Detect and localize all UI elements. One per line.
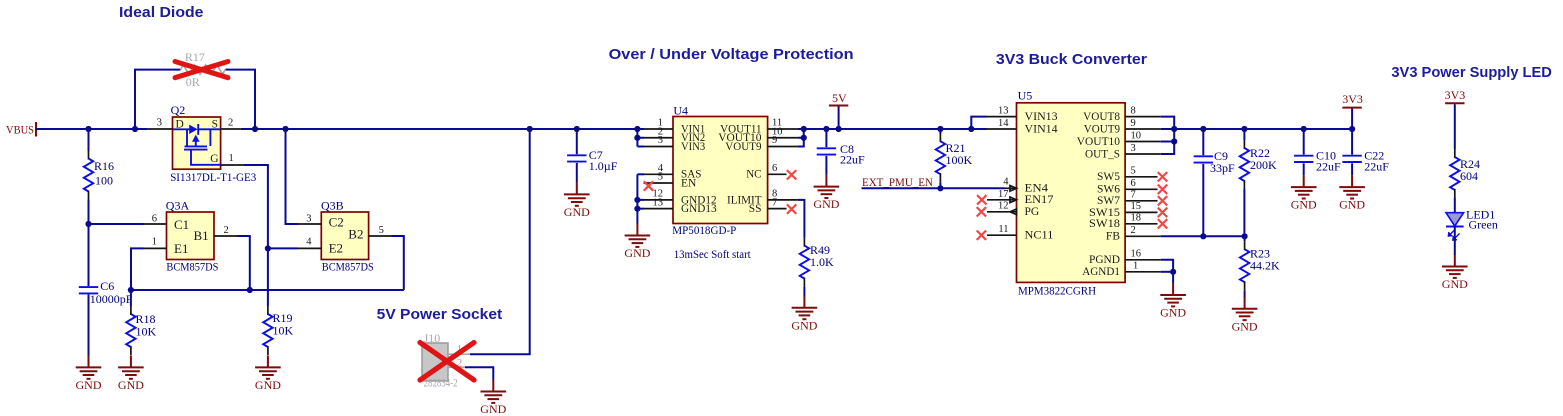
- wire ILIMIT to R49: [798, 200, 805, 238]
- svg-text:1: 1: [1133, 261, 1138, 272]
- wire R24 to LED1: [1454, 198, 1456, 213]
- pin 3 (U4 VIN3): [644, 146, 674, 148]
- ground (C7): [564, 182, 590, 219]
- svg-text:22uF: 22uF: [840, 152, 865, 166]
- node U4 input bus top: [634, 126, 640, 132]
- svg-text:SS: SS: [749, 203, 762, 215]
- svg-text:R17: R17: [185, 50, 205, 64]
- wire C6 to GND: [88, 294, 90, 355]
- ground (C22): [1339, 175, 1365, 212]
- pin 16 (U5 PGND): [1125, 259, 1161, 261]
- svg-text:U5: U5: [1018, 89, 1033, 103]
- resistor R23: [1244, 236, 1246, 241]
- svg-text:13: 13: [998, 106, 1009, 117]
- pin 1 (U4 VIN1): [644, 128, 674, 130]
- wire B1 down: [237, 236, 250, 290]
- svg-text:Q3B: Q3B: [321, 198, 344, 212]
- svg-text:Q2: Q2: [171, 103, 186, 117]
- svg-text:PG: PG: [1025, 206, 1040, 218]
- wire R21 to EN net: [939, 182, 941, 188]
- svg-text:7: 7: [772, 197, 777, 208]
- pin 5 (U5 SW5, no connect): [1125, 176, 1157, 178]
- svg-text:13: 13: [653, 197, 664, 208]
- node R17 left riser: [132, 126, 138, 132]
- resistor R16: [88, 129, 90, 151]
- svg-text:1: 1: [229, 153, 234, 164]
- power 5V: [838, 107, 840, 130]
- svg-text:0R: 0R: [186, 75, 200, 89]
- svg-text:SI1317DL-T1-GE3: SI1317DL-T1-GE3: [170, 170, 256, 184]
- wire R23 to GND: [1244, 290, 1246, 297]
- svg-text:5V Power Socket: 5V Power Socket: [377, 306, 503, 323]
- pin 13 (U5 VIN13): [987, 116, 1017, 118]
- pin 14 (U5 VIN14): [987, 128, 1017, 130]
- wire J10 riser: [470, 129, 530, 354]
- pin 9 (U4 VOUT9): [768, 146, 798, 148]
- node C9 top: [1200, 126, 1206, 132]
- svg-text:Q3A: Q3A: [166, 198, 190, 212]
- svg-text:E2: E2: [329, 241, 343, 256]
- node PGND/AGND: [1170, 269, 1176, 275]
- node G/E2/R19: [265, 245, 271, 251]
- capacitor C7: [576, 129, 578, 154]
- pin 11 (U5 NC11, no connect): [987, 234, 1017, 236]
- wire C22 to GND: [1351, 163, 1353, 175]
- node E1/R18/base rail: [128, 287, 134, 293]
- node U4 pin2: [634, 135, 640, 141]
- pin 17 (U5 EN17, no connect): [987, 199, 1017, 201]
- node 5V riser: [836, 126, 842, 132]
- svg-text:PGND: PGND: [1089, 254, 1120, 266]
- wire C1 pin6: [89, 223, 144, 225]
- connector J10 (not fitted, gray): [422, 343, 470, 381]
- wire base rail: [131, 289, 404, 291]
- svg-text:C2: C2: [329, 215, 344, 230]
- node B1/base rail: [247, 287, 253, 293]
- svg-text:C1: C1: [174, 217, 189, 232]
- svg-text:3V3 Power Supply LED: 3V3 Power Supply LED: [1391, 64, 1552, 81]
- svg-text:B2: B2: [348, 226, 363, 241]
- svg-text:6: 6: [152, 214, 157, 225]
- svg-text:604: 604: [1460, 169, 1478, 183]
- LED LED1: [1446, 213, 1464, 240]
- capacitor C10: [1303, 129, 1305, 155]
- svg-text:AGND1: AGND1: [1082, 266, 1120, 278]
- svg-text:Ideal Diode: Ideal Diode: [119, 4, 204, 21]
- svg-text:SW7: SW7: [1097, 195, 1120, 207]
- pin 6 (Q3A C1): [144, 223, 167, 225]
- pin 5 (Q3B B2): [369, 235, 392, 237]
- pin 3 (Q2 D): [148, 128, 173, 130]
- pin 7 (U5 SW7, no connect): [1125, 200, 1157, 202]
- svg-text:FB: FB: [1106, 231, 1120, 243]
- svg-text:VIN14: VIN14: [1025, 123, 1058, 135]
- svg-text:VIN13: VIN13: [1025, 111, 1058, 123]
- svg-text:10K: 10K: [136, 324, 157, 338]
- transistor Q3A body: [167, 212, 215, 260]
- svg-text:SW18: SW18: [1089, 218, 1120, 230]
- pin 2 (U4 VIN2): [644, 137, 674, 139]
- pin 11 (U4 VOUT11): [768, 128, 798, 130]
- pin 2 (U5 FB): [1125, 235, 1161, 237]
- node U4 pin12: [634, 197, 640, 203]
- svg-text:17: 17: [998, 189, 1009, 200]
- svg-text:16: 16: [1131, 249, 1142, 260]
- svg-text:EN4: EN4: [1025, 183, 1049, 195]
- resistor R21: [939, 129, 941, 134]
- wire 3V3 to R24: [1454, 104, 1456, 149]
- regulator U5 body (MPM3822CGRH): [1017, 103, 1126, 283]
- pin 12 (U4 GND12): [644, 199, 674, 201]
- svg-text:1: 1: [152, 237, 157, 248]
- svg-text:3V3: 3V3: [1445, 88, 1466, 102]
- node VIN riser: [968, 126, 974, 132]
- svg-text:C6: C6: [100, 279, 114, 293]
- wire C9 to FB: [1202, 164, 1204, 236]
- node R22 top: [1241, 126, 1247, 132]
- svg-text:10: 10: [1131, 130, 1142, 141]
- svg-text:Over / Under Voltage Protectio: Over / Under Voltage Protection: [609, 46, 854, 63]
- svg-text:100K: 100K: [946, 153, 973, 167]
- svg-text:VOUT8: VOUT8: [1083, 111, 1120, 123]
- svg-text:VOUT10: VOUT10: [1077, 136, 1120, 148]
- ground (J10): [480, 380, 506, 416]
- wire R22 to FB: [1243, 189, 1245, 236]
- svg-text:10000pF: 10000pF: [90, 292, 133, 306]
- svg-text:12: 12: [998, 200, 1009, 211]
- pin 7 (U4 SS, no connect): [768, 208, 787, 210]
- red X over R17: [175, 62, 228, 78]
- svg-text:6: 6: [772, 163, 777, 174]
- wire E2: [268, 247, 298, 249]
- svg-text:MP5018GD-P: MP5018GD-P: [672, 223, 736, 237]
- capacitor C8: [825, 129, 827, 147]
- wire FB net: [1161, 235, 1245, 237]
- wire Q2 G net: [244, 165, 268, 306]
- pin 12 (U5 PG, no connect): [987, 211, 1017, 213]
- wire J10 pin2 to GND: [465, 367, 493, 379]
- node C9 bottom: [1200, 233, 1206, 239]
- transistor Q3B body: [321, 212, 368, 260]
- svg-text:U4: U4: [673, 103, 688, 117]
- wire E1 down: [131, 248, 144, 290]
- svg-text:NC: NC: [746, 169, 762, 181]
- svg-text:GND13: GND13: [681, 203, 717, 215]
- svg-text:22uF: 22uF: [1364, 159, 1389, 173]
- wire U5 output bus: [1161, 117, 1174, 154]
- svg-text:VOUT9: VOUT9: [725, 141, 761, 153]
- node R21: [937, 126, 943, 132]
- wire VBUS rail left: [36, 128, 148, 130]
- svg-text:7: 7: [1131, 190, 1136, 201]
- wire C8 to GND: [825, 156, 827, 175]
- node J10 riser: [527, 126, 533, 132]
- node C7: [574, 126, 580, 132]
- svg-text:1.0K: 1.0K: [810, 255, 834, 269]
- pin 2 (Q3A B1): [214, 235, 237, 237]
- wire U4 input bus: [636, 129, 638, 147]
- svg-text:SW6: SW6: [1097, 184, 1120, 196]
- node U4 pin11 bus: [801, 126, 807, 132]
- svg-text:8: 8: [1131, 106, 1136, 117]
- node VBUS/R16: [85, 126, 91, 132]
- svg-text:15: 15: [1131, 201, 1142, 212]
- capacitor C9: [1202, 129, 1204, 155]
- node U5 out bus pin10: [1171, 138, 1177, 144]
- pin 1 (Q3A E1): [144, 247, 167, 249]
- node C10: [1301, 126, 1307, 132]
- ground (C10): [1291, 175, 1317, 212]
- svg-text:6: 6: [1131, 178, 1136, 189]
- svg-text:VIN3: VIN3: [681, 141, 705, 153]
- svg-text:3V3 Buck Converter: 3V3 Buck Converter: [996, 51, 1147, 68]
- resistor R17 (not fitted, gray): [181, 65, 226, 74]
- svg-text:S: S: [212, 118, 218, 130]
- svg-text:14: 14: [998, 118, 1009, 129]
- node Q2 S / R17: [252, 126, 258, 132]
- wire C2 riser: [286, 129, 299, 224]
- wire to pin2: [637, 137, 644, 139]
- wire C10 to GND: [1303, 163, 1305, 175]
- wire R17 right riser: [225, 70, 255, 129]
- svg-text:2: 2: [224, 225, 229, 236]
- svg-text:VOUT9: VOUT9: [1084, 123, 1120, 135]
- transistor Q2 (P-MOSFET) body: [173, 117, 221, 169]
- node EXT_PMU_EN: [937, 185, 943, 191]
- pin 9 (U5 VOUT9): [1125, 128, 1161, 130]
- svg-text:J10: J10: [424, 331, 441, 345]
- svg-text:3: 3: [1131, 143, 1136, 154]
- svg-text:11: 11: [998, 224, 1008, 235]
- svg-text:D: D: [176, 118, 184, 130]
- pin 3 (Q3B C2): [298, 223, 321, 225]
- pin 5 (U4 EN, no connect): [644, 182, 674, 184]
- svg-text:E1: E1: [174, 241, 188, 256]
- resistor R18: [130, 290, 132, 306]
- pin 15 (U5 SW15, no connect): [1125, 211, 1157, 213]
- ground (LED1): [1442, 255, 1468, 292]
- wire 5V rail: [798, 128, 987, 130]
- node C8: [823, 126, 829, 132]
- wire EXT_PMU_EN: [862, 187, 1005, 189]
- wire R49 to GND: [803, 287, 805, 297]
- svg-text:13mSec Soft start: 13mSec Soft start: [674, 247, 752, 261]
- svg-text:5: 5: [379, 225, 384, 236]
- pin 4 (U4 SAS): [644, 173, 674, 175]
- svg-text:5V: 5V: [832, 91, 847, 105]
- pin 8 (U4 ILIMIT): [768, 199, 798, 201]
- svg-text:33pF: 33pF: [1210, 161, 1235, 175]
- svg-text:BCM857DS: BCM857DS: [322, 259, 374, 273]
- pin 6 (U5 SW6, no connect): [1125, 188, 1157, 190]
- node FB/R23: [1242, 233, 1248, 239]
- resistor R49: [800, 238, 809, 287]
- svg-text:EXT_PMU_EN: EXT_PMU_EN: [862, 175, 933, 189]
- pin 10 (U4 VOUT10): [768, 137, 798, 139]
- svg-text:3: 3: [658, 135, 663, 146]
- svg-text:3: 3: [157, 117, 162, 128]
- svg-text:44.2K: 44.2K: [1250, 259, 1280, 273]
- svg-text:10K: 10K: [273, 323, 294, 337]
- svg-text:5: 5: [1131, 166, 1136, 177]
- power 3V3 (buck output): [1351, 109, 1353, 130]
- pin 8 (U5 VOUT8): [1125, 116, 1161, 118]
- svg-text:2: 2: [228, 117, 233, 128]
- node U4 pin13: [634, 206, 640, 212]
- svg-text:4: 4: [1003, 177, 1009, 188]
- svg-text:3: 3: [306, 214, 311, 225]
- svg-text:5: 5: [658, 172, 663, 183]
- ground (under C6): [76, 355, 102, 392]
- svg-text:SW15: SW15: [1089, 207, 1120, 219]
- svg-text:NC11: NC11: [1025, 230, 1054, 242]
- svg-text:G: G: [210, 153, 218, 165]
- svg-text:100: 100: [95, 174, 113, 188]
- svg-text:18: 18: [1131, 213, 1142, 224]
- ground (R49): [791, 296, 817, 333]
- pin 4 (U5 EN4): [1005, 187, 1017, 189]
- wire VBUS rail right of Q2: [241, 128, 644, 130]
- wire to pin3: [637, 146, 644, 148]
- ground (R23): [1232, 297, 1258, 334]
- resistor R22: [1243, 129, 1245, 140]
- pin 2 (Q2 S): [221, 128, 241, 130]
- wire VIN13 riser: [971, 117, 986, 129]
- svg-text:B1: B1: [194, 228, 209, 243]
- pin 18 (U5 SW18, no connect): [1125, 223, 1157, 225]
- ground (U5): [1160, 283, 1186, 320]
- svg-text:OUT_S: OUT_S: [1085, 148, 1120, 160]
- wire R17 left riser: [135, 70, 181, 129]
- resistor R19: [263, 306, 272, 355]
- ground (under R18): [118, 355, 144, 392]
- wire U4 ground bus: [636, 174, 638, 223]
- svg-text:200K: 200K: [1250, 158, 1277, 172]
- node Q3B C2 riser: [282, 126, 288, 132]
- svg-text:MPM3822CGRH: MPM3822CGRH: [1018, 284, 1096, 298]
- pin 3 (U5 OUT_S): [1125, 153, 1161, 155]
- svg-text:2: 2: [1131, 225, 1136, 236]
- svg-text:9: 9: [1131, 118, 1136, 129]
- node U5 out bus pin9: [1171, 126, 1177, 132]
- capacitor C6: [79, 287, 98, 293]
- capacitor C22: [1351, 129, 1353, 155]
- pin 1 (Q2 G): [221, 164, 244, 166]
- pin 13 (U4 GND13): [644, 208, 674, 210]
- svg-text:22uF: 22uF: [1316, 159, 1341, 173]
- wire C7 to GND: [576, 163, 578, 183]
- svg-text:EN: EN: [681, 177, 697, 189]
- wire R16 to C6 column: [88, 200, 90, 287]
- wire 3V3 rail: [1161, 128, 1352, 130]
- node U4 pin10 bus: [801, 135, 807, 141]
- node C22/3V3: [1349, 126, 1355, 132]
- pin 1 (U5 AGND1): [1125, 271, 1161, 273]
- svg-text:BCM857DS: BCM857DS: [166, 259, 218, 273]
- svg-text:3V3: 3V3: [1342, 92, 1363, 106]
- svg-text:R16: R16: [94, 159, 114, 173]
- pin 6 (U4 NC, no connect): [768, 173, 787, 175]
- svg-text:4: 4: [306, 237, 312, 248]
- wire PGND bus: [1161, 260, 1173, 284]
- svg-text:282834-2: 282834-2: [424, 376, 458, 390]
- svg-text:EN17: EN17: [1025, 194, 1054, 206]
- pin 4 (Q3B E2): [298, 247, 321, 249]
- wire LED1 to GND: [1454, 227, 1456, 256]
- ground (U4 bus): [624, 224, 650, 261]
- wire U4 output bus: [798, 129, 804, 147]
- svg-text:Green: Green: [1469, 218, 1498, 232]
- svg-text:SW5: SW5: [1097, 171, 1120, 183]
- resistor R24: [1450, 149, 1459, 198]
- svg-text:1.0µF: 1.0µF: [589, 159, 618, 173]
- ground (C8): [813, 175, 839, 212]
- svg-text:9: 9: [772, 135, 777, 146]
- ground (under R19): [255, 355, 281, 392]
- svg-text:VBUS: VBUS: [6, 123, 34, 137]
- wire B2 down to base rail: [392, 236, 404, 290]
- node R16/C1: [85, 221, 91, 227]
- pin 10 (U5 VOUT10): [1125, 141, 1161, 143]
- op-amp U4 body (MP5018GD-P): [673, 117, 768, 224]
- red X over J10: [420, 343, 474, 381]
